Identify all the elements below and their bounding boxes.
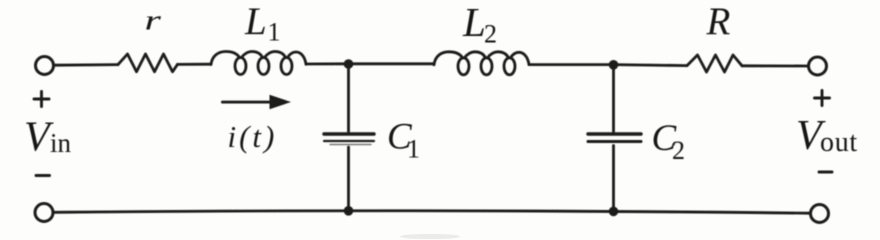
svg-text:1: 1 (268, 18, 281, 47)
label C1 (387, 117, 420, 164)
plus sign right (815, 91, 830, 106)
minus sign left (36, 174, 50, 177)
svg-text:out: out (820, 127, 858, 158)
svg-text:2: 2 (672, 136, 685, 165)
wire (55, 63, 118, 66)
current arrow i(t) (221, 95, 291, 109)
svg-text:L: L (244, 0, 267, 43)
terminal bottom-left (35, 204, 53, 222)
svg-text:in: in (50, 128, 72, 158)
svg-text:i(t): i(t) (228, 119, 278, 154)
inductor L1 (211, 52, 306, 75)
wire C2 branch lower (612, 146, 615, 212)
svg-text:1: 1 (407, 135, 420, 164)
bottom rail wire (55, 211, 810, 213)
svg-text:r: r (145, 4, 162, 36)
terminal top-right (809, 57, 827, 75)
node dot bottom C2 (609, 207, 619, 217)
faint caption smudge (400, 234, 460, 239)
wire (614, 65, 688, 66)
minus sign right (819, 171, 832, 174)
wire (742, 64, 807, 67)
inductor L2 (434, 52, 529, 75)
svg-text:R: R (706, 0, 731, 43)
svg-text:2: 2 (484, 20, 497, 49)
wire C1 branch upper (347, 64, 350, 132)
capacitor C1 (324, 134, 374, 145)
label C2 (652, 118, 686, 165)
plus sign left (34, 92, 49, 107)
capacitor C2 (588, 134, 641, 142)
label L1 (244, 0, 281, 47)
resistor R (687, 55, 742, 72)
wire (306, 62, 349, 65)
terminal bottom-right (811, 205, 829, 223)
svg-text:L: L (462, 0, 486, 45)
terminal top-left (36, 57, 54, 75)
wire C2 branch upper (612, 65, 615, 132)
wire (178, 63, 212, 66)
resistor r (118, 54, 178, 72)
wire (349, 62, 435, 65)
node dot bottom C1 (344, 206, 354, 216)
node dot top C1 (344, 59, 354, 69)
node dot top C2 (609, 60, 619, 70)
label Vout (796, 113, 858, 159)
label Vin (24, 115, 72, 161)
wire (529, 63, 614, 66)
wire C1 branch lower (347, 147, 350, 211)
label L2 (462, 0, 497, 49)
